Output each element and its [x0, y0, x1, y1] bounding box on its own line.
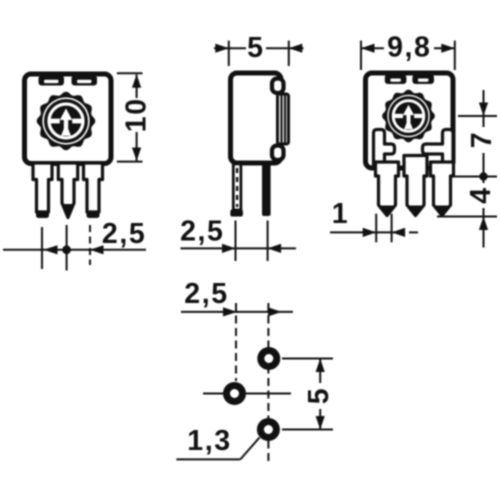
side view top tab: [272, 79, 284, 94]
front rotor inner disc: [51, 106, 82, 137]
pcb leader line for 1,3: [240, 438, 259, 460]
side view body: [231, 73, 282, 163]
side dim "5" arrow left: [289, 44, 303, 53]
rear dim "9,8" extension left: [360, 41, 362, 70]
front rotor middle ring: [46, 101, 87, 142]
side bottom extension line right: [267, 221, 269, 262]
front bottom dot junction: [62, 245, 71, 254]
rear right feature line A (rotor centre): [458, 115, 497, 117]
side leg right (solid): [262, 164, 271, 216]
svg-text:2,5: 2,5: [180, 216, 224, 248]
svg-text:1: 1: [332, 198, 349, 230]
front bottom extension line leg2: [66, 225, 68, 271]
front bottom arrow pointing left at leg1 line: [44, 245, 58, 254]
dimension "10" arrow up: [132, 74, 141, 88]
rear dim "1" line: [330, 231, 403, 233]
rear right dot at B: [479, 172, 487, 180]
pcb dim "5" arrow down: [316, 416, 325, 430]
pcb dim "5" arrow up: [316, 359, 325, 373]
pcb hole bottom: [260, 422, 276, 438]
pcb centreline vertical (right column): [267, 303, 269, 464]
rear rotor gear ring: [382, 90, 435, 143]
rear dim "9,8" line: [361, 47, 455, 49]
dimension "10" extension tick top: [117, 72, 143, 74]
rear right dimension line vertical: [483, 90, 485, 248]
front bottom dimension line: [3, 249, 146, 251]
front leg 1 (left): [33, 163, 52, 212]
rear right feature line C (pin tips): [437, 216, 497, 218]
front bottom extension line leg1: [41, 227, 43, 269]
side view rotor boss strip: [278, 94, 289, 144]
rear leg 3 (right): [431, 162, 454, 216]
pcb centreline horizontal through middle hole: [203, 393, 291, 395]
dimension "10" extension tick bottom: [117, 161, 143, 163]
pcb extension line middle column (dashed): [235, 303, 237, 381]
svg-text:1,3: 1,3: [187, 425, 231, 457]
side dim "5" arrow right: [215, 44, 229, 53]
rear dim "1" extension left: [375, 214, 377, 243]
rear right arrow up at C: [479, 217, 488, 231]
rear view body: [366, 73, 454, 168]
side dim "5" extension line right: [288, 41, 290, 66]
rear dim "1" arrow left: [392, 228, 406, 237]
side bottom extension line left: [235, 221, 237, 262]
front view top notch right: [72, 76, 98, 86]
pcb dim "5" tick top: [282, 358, 333, 360]
svg-text:5: 5: [303, 387, 335, 404]
rear dim "1" arrow right: [363, 228, 377, 237]
svg-text:2,5: 2,5: [102, 218, 146, 250]
svg-text:5: 5: [247, 32, 264, 64]
svg-text:9,8: 9,8: [387, 32, 431, 64]
front bottom arrow left: [90, 245, 104, 254]
pcb dim "5" tick bottom: [282, 429, 333, 431]
front view top notch left: [39, 76, 65, 86]
pcb hole top: [261, 351, 277, 367]
front rotor slot cutouts: [50, 108, 81, 135]
pcb hole middle: [227, 386, 243, 402]
front bottom extension line leg3 (dashed): [89, 225, 91, 265]
rear top notch left: [385, 75, 407, 85]
side leg left (with hidden dashes): [233, 164, 241, 210]
rear rotor slot cutouts: [395, 105, 423, 130]
rear rotor inner disc: [395, 102, 423, 130]
svg-text:7: 7: [466, 131, 498, 148]
dimension "10" arrow down: [132, 148, 141, 162]
rear right arrow down at A: [479, 103, 488, 117]
side view bottom tab: [272, 146, 284, 161]
side dim "5" line: [214, 47, 304, 49]
front leg 3 (right): [84, 163, 103, 212]
rear left terminal hook: [374, 130, 395, 166]
rear rotor middle ring: [390, 98, 427, 135]
pcb dim "5" line vertical: [319, 359, 321, 430]
front leg 2 (middle, pointed): [58, 163, 77, 218]
pcb dim "2,5" arrow at right column: [268, 307, 282, 316]
rear leg 2 (middle): [404, 156, 427, 216]
front view body: [25, 74, 112, 164]
side bottom dimension line: [181, 247, 297, 249]
rear top notch right: [412, 75, 434, 85]
rear dim "9,8" extension right: [454, 41, 456, 70]
front rotor gear ring: [37, 92, 96, 151]
rear right terminal hook: [423, 130, 454, 166]
pcb dim "2,5" line: [181, 311, 293, 313]
side dim "5" extension line left: [228, 41, 230, 66]
svg-text:10: 10: [121, 97, 153, 132]
rear right feature line B (shoulder): [450, 176, 497, 178]
rear leg 1 (left): [376, 162, 399, 216]
dimension "10" line: [136, 75, 138, 161]
svg-text:2,5: 2,5: [184, 278, 228, 310]
svg-text:4: 4: [465, 186, 497, 203]
side bottom arrow right: [222, 244, 236, 253]
rear dim "1" extension right: [391, 214, 393, 243]
rear dim "9,8" arrow left-out: [361, 44, 375, 53]
side bottom arrow left: [268, 244, 282, 253]
rear dim "9,8" arrow right-out: [441, 44, 455, 53]
pcb dim "2,5" arrow at left column: [223, 307, 237, 316]
